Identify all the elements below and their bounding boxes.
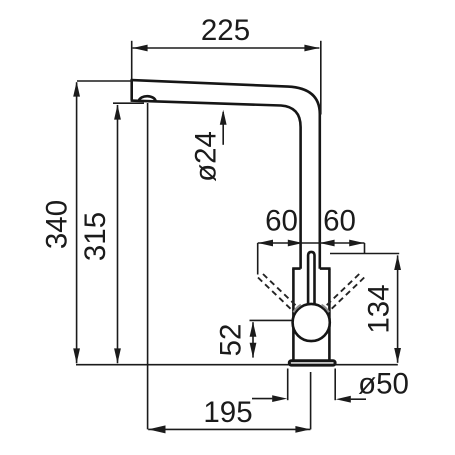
svg-text:52: 52 [215,324,248,357]
dim diameter 50 leader arrow right [351,398,366,400]
dim 225 arrow left [133,45,148,52]
dim 52 extension top [250,319,292,321]
dim 134 extension top [330,253,399,255]
dim 315 arrow down [114,348,121,363]
dim diameter 50 extension right [334,369,336,401]
spout bottom outline and bend into riser left edge [131,101,301,269]
svg-text:60: 60 [323,205,356,238]
dim 60-60 line [258,242,365,244]
dim diameter 50 extension left [287,369,289,401]
ball joint circle [293,304,330,341]
dim diameter 24 leader arrow [222,112,224,145]
dim 52 line [252,322,254,357]
dim diameter 50 leader arrow left [252,398,272,400]
dim 134 arrow down [394,348,401,363]
svg-text:ø24: ø24 [190,131,223,182]
dim 60-60 extension left [257,243,259,275]
dim 195 extension left / outlet centerline [147,103,149,429]
dim 195 line [148,428,310,430]
dim 195 extension right / body centerline [310,372,312,429]
dim 315 extension top [113,102,144,104]
dim 340 line [76,82,78,363]
dashed lever swung left [258,274,299,313]
dim 60 left arrow outer [258,240,273,247]
svg-text:340: 340 [41,200,74,249]
dim 60 right arrow outer [349,240,364,247]
svg-text:134: 134 [363,284,396,333]
dim 60 right arrow inner [320,240,335,247]
dim 52 arrow up [250,322,257,337]
svg-text:60: 60 [265,205,298,238]
svg-text:225: 225 [201,14,250,47]
svg-text:315: 315 [79,212,112,261]
lever socket arc hidden-line right [322,305,330,313]
dim 225 extension left [131,41,133,79]
dim 195 arrow left [148,425,165,433]
spout tip left edge [130,79,133,100]
body top edge segments [292,267,330,270]
dim 340 extension top [77,80,132,82]
dashed lever swung right [323,274,364,313]
dim 340 arrow up [73,82,80,97]
body left side [292,269,295,360]
body right side [328,269,331,360]
dim 340 arrow down [73,348,80,363]
dim 315 arrow up [114,105,121,120]
spout top outline with bend into riser right edge [132,80,320,269]
dim 195 arrow right [295,426,310,433]
dim 225 arrow right [304,45,319,52]
aerator bump on spout underside [139,96,156,101]
dim 134 line [397,255,399,362]
svg-text:ø50: ø50 [358,368,409,401]
handle lever rod with rounded cap [308,252,314,305]
dim 60-60 extension right [364,243,366,254]
dim 52 arrow down [250,343,257,358]
dim 134 arrow up [394,255,401,270]
dim 225 line [133,47,320,49]
lever socket arc hidden-line left [293,305,301,313]
dim 60 left arrow inner [288,240,303,247]
mounting flange [289,361,335,365]
countertop line [76,364,398,366]
svg-text:195: 195 [203,396,252,429]
dim 315 line [117,105,119,363]
dim 225 extension right [320,41,322,115]
